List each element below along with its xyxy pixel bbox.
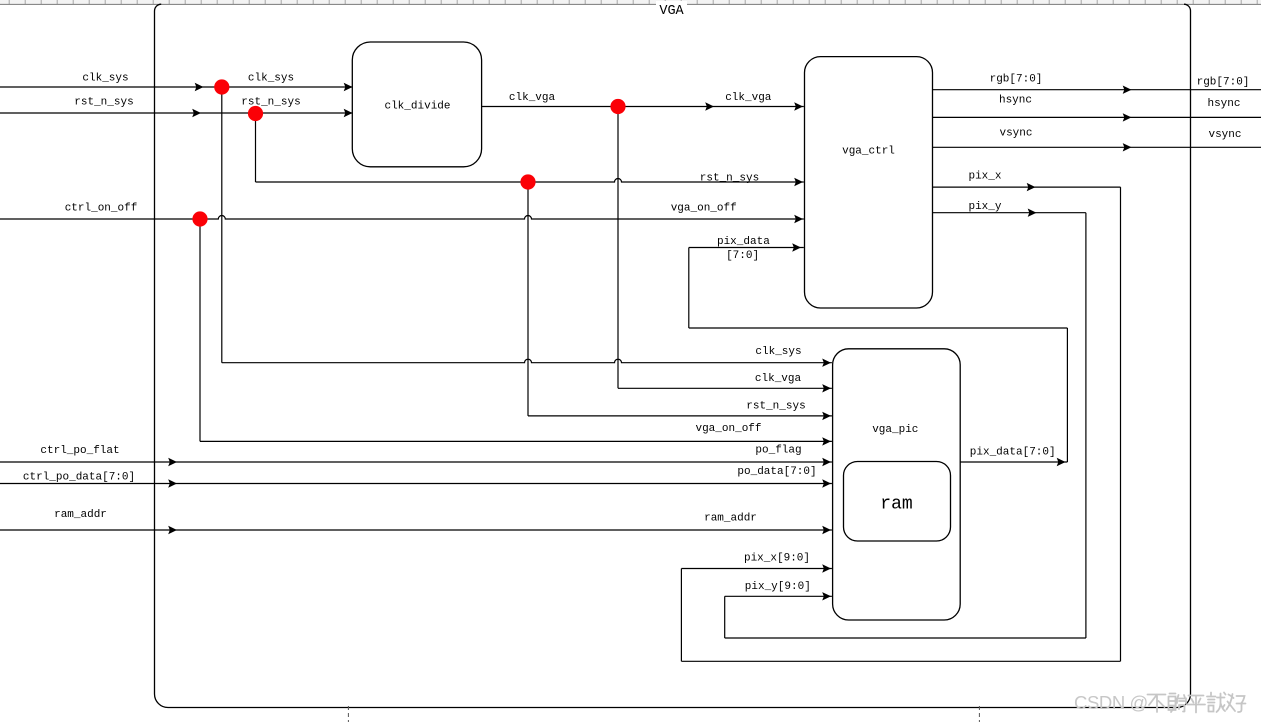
watermark glyph jiu xyxy=(1207,693,1226,713)
svg-text:hsync: hsync xyxy=(999,95,1032,107)
junction rst_n_sys xyxy=(248,106,263,121)
watermark glyph ping xyxy=(1187,696,1205,713)
wire pix_x vertical down xyxy=(1120,187,1122,661)
svg-text:po_data[7:0]: po_data[7:0] xyxy=(737,466,816,478)
svg-text:vsync: vsync xyxy=(999,128,1032,140)
svg-text:VGA: VGA xyxy=(659,4,684,19)
svg-text:pix_y[9:0]: pix_y[9:0] xyxy=(745,581,811,593)
svg-text:ram_addr: ram_addr xyxy=(54,509,107,521)
ruler strip xyxy=(0,0,1261,4)
wire clk_vga to vga_pic xyxy=(618,387,832,389)
svg-text:clk_divide: clk_divide xyxy=(384,101,450,113)
wire pix_y vertical up xyxy=(724,596,726,638)
arrow rst_n_sys into vga_ctrl xyxy=(794,178,803,186)
wire vga_on_off to vga_pic xyxy=(200,440,832,442)
svg-text:vga_ctrl: vga_ctrl xyxy=(842,146,895,158)
wire pix_x into vga_pic xyxy=(681,568,832,570)
wire vsync output xyxy=(933,146,1261,148)
arrow rst_n_sys into vga_pic xyxy=(822,412,831,420)
svg-text:clk_sys: clk_sys xyxy=(248,73,294,85)
svg-text:pix_x[9:0]: pix_x[9:0] xyxy=(744,553,810,565)
svg-text:rst_n_sys: rst_n_sys xyxy=(74,97,133,109)
arrow ctrl_po_flat mid xyxy=(168,458,177,466)
arrow clk_vga into vga_pic xyxy=(822,384,831,392)
arrow vsync out xyxy=(1123,143,1132,151)
svg-text:ctrl_po_data[7:0]: ctrl_po_data[7:0] xyxy=(23,472,135,484)
watermark glyph bu xyxy=(1148,695,1166,713)
wire ram_addr input xyxy=(0,529,832,531)
svg-text:vga_pic: vga_pic xyxy=(872,424,918,436)
block vga_ctrl xyxy=(805,57,933,308)
outer container VGA xyxy=(155,4,1191,707)
arrow rgb out xyxy=(1123,86,1132,94)
svg-text:ram_addr: ram_addr xyxy=(704,513,757,525)
arrow clk_vga mid xyxy=(705,102,714,110)
arrow clk_sys into clk_divide xyxy=(344,83,353,91)
block ram xyxy=(844,462,951,542)
junction clk_vga xyxy=(610,99,625,114)
wire pix_data feedback vertical left xyxy=(688,248,690,329)
wire pix_x vertical up xyxy=(680,569,682,662)
watermark glyph tang xyxy=(1169,694,1187,713)
wire pix_y bottom xyxy=(725,637,1086,639)
svg-text:pix_y: pix_y xyxy=(968,201,1001,213)
junction clk_sys xyxy=(214,79,229,94)
page break dash right xyxy=(978,706,980,722)
wire hsync output xyxy=(933,116,1261,118)
svg-text:ctrl_po_flat: ctrl_po_flat xyxy=(40,445,119,457)
arrow clk_sys mid xyxy=(195,83,204,91)
wire ctrl_po_data to po_data xyxy=(0,483,832,485)
svg-text:clk_sys: clk_sys xyxy=(82,73,128,85)
page break dash left xyxy=(347,706,349,722)
block vga_pic xyxy=(833,349,961,620)
arrow vga_on_off into vga_ctrl xyxy=(794,215,803,223)
wire pix_x bottom xyxy=(681,660,1120,662)
svg-text:clk_vga: clk_vga xyxy=(725,92,772,104)
svg-text:ctrl_on_off: ctrl_on_off xyxy=(65,203,138,215)
arrow ram_addr into vga_pic xyxy=(822,526,831,534)
svg-text:rgb[7:0]: rgb[7:0] xyxy=(990,74,1043,86)
svg-text:vga_on_off: vga_on_off xyxy=(695,423,761,435)
label VGA xyxy=(656,1,687,15)
wire rst_n_sys branch down xyxy=(255,113,257,182)
arrow po_data into vga_pic xyxy=(822,479,831,487)
arrow pix_data out of vga_pic xyxy=(1057,458,1066,466)
wire rst_n_sys branch2 down xyxy=(527,182,529,416)
svg-text:CSDN @: CSDN @ xyxy=(1074,692,1148,713)
svg-text:vsync: vsync xyxy=(1208,129,1241,141)
watermark glyph hao xyxy=(1227,694,1246,712)
wire ctrl_on_off to vga_ctrl vga_on_off xyxy=(0,216,804,220)
svg-text:clk_vga: clk_vga xyxy=(755,373,802,385)
svg-text:[7:0]: [7:0] xyxy=(726,250,759,262)
svg-text:pix_data: pix_data xyxy=(717,236,770,248)
arrow pix_data into vga_ctrl xyxy=(792,243,801,251)
wire pix_x right xyxy=(933,186,1121,188)
arrow clk_sys into vga_pic xyxy=(822,359,831,367)
block clk_divide xyxy=(352,42,481,167)
wire rst_n_sys to vga_ctrl xyxy=(256,179,804,182)
arrow ctrl_po_data mid xyxy=(168,479,177,487)
svg-text:clk_vga: clk_vga xyxy=(509,92,556,104)
arrow ram_addr mid xyxy=(168,526,177,534)
svg-text:po_flag: po_flag xyxy=(755,445,801,457)
wire ctrl_po_flat to po_flag xyxy=(0,461,832,463)
wire rgb output xyxy=(933,89,1261,91)
svg-text:rst_n_sys: rst_n_sys xyxy=(241,97,300,109)
wire clk_vga branch down xyxy=(617,107,619,389)
svg-text:clk_sys: clk_sys xyxy=(755,346,801,358)
arrow pix_x mid xyxy=(1027,183,1036,191)
svg-text:pix_x: pix_x xyxy=(968,171,1001,183)
arrow rst_n_sys mid xyxy=(192,109,201,117)
svg-text:hsync: hsync xyxy=(1207,98,1240,110)
svg-text:rst_n_sys: rst_n_sys xyxy=(700,173,759,185)
wire clk_vga from clk_divide xyxy=(480,106,803,108)
wire clk_sys input xyxy=(0,86,353,88)
junction ctrl_on_off xyxy=(192,211,207,226)
arrow vga_on_off into vga_pic xyxy=(822,437,831,445)
wire ctrl_on_off branch down xyxy=(199,219,201,441)
arrow rst_n_sys into clk_divide xyxy=(344,109,353,117)
wire rst_n_sys input xyxy=(0,112,353,114)
svg-text:pix_data[7:0]: pix_data[7:0] xyxy=(970,447,1056,459)
svg-text:vga_on_off: vga_on_off xyxy=(671,203,737,215)
arrow pix_x into vga_pic xyxy=(822,564,831,572)
arrow hsync out xyxy=(1123,113,1132,121)
wire clk_sys branch down xyxy=(221,87,223,363)
wire rst_n_sys to vga_pic xyxy=(528,415,832,417)
arrow clk_vga into vga_ctrl xyxy=(794,102,803,110)
wire clk_sys to vga_pic xyxy=(222,359,832,363)
arrow pix_y into vga_pic xyxy=(822,592,831,600)
arrow po_flag into vga_pic xyxy=(822,458,831,466)
svg-text:rgb[7:0]: rgb[7:0] xyxy=(1197,77,1250,89)
wire pix_y into vga_pic xyxy=(725,595,832,597)
svg-text:rst_n_sys: rst_n_sys xyxy=(746,401,805,413)
wire pix_data feedback vertical right xyxy=(1066,328,1068,462)
wire pix_data feedback middle xyxy=(689,327,1068,329)
wire pix_data into vga_ctrl xyxy=(689,247,804,249)
wire pix_data out of vga_pic xyxy=(960,461,1067,463)
wire pix_y right xyxy=(933,212,1086,214)
wire pix_y vertical down xyxy=(1085,213,1087,638)
svg-text:ram: ram xyxy=(880,495,912,515)
arrow pix_y mid xyxy=(1028,209,1037,217)
junction rst_n_sys 2 xyxy=(520,174,535,189)
